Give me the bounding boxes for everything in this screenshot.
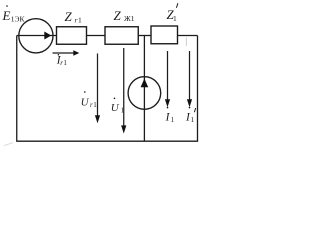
- svg-text:1: 1: [121, 106, 125, 114]
- svg-text:1: 1: [173, 14, 177, 23]
- svg-text:1ЭК: 1ЭК: [11, 14, 26, 23]
- svg-text:U: U: [111, 102, 120, 114]
- svg-text:1: 1: [191, 116, 195, 124]
- svg-text:1: 1: [78, 16, 82, 25]
- svg-text:Ж1: Ж1: [124, 14, 135, 23]
- svg-text:Z: Z: [65, 9, 73, 24]
- svg-text:U: U: [81, 97, 90, 109]
- svg-text:1: 1: [93, 101, 97, 109]
- svg-text:Z: Z: [114, 8, 122, 23]
- svg-text:1: 1: [171, 116, 175, 124]
- svg-text:1: 1: [63, 59, 67, 67]
- svg-text:E: E: [2, 8, 11, 23]
